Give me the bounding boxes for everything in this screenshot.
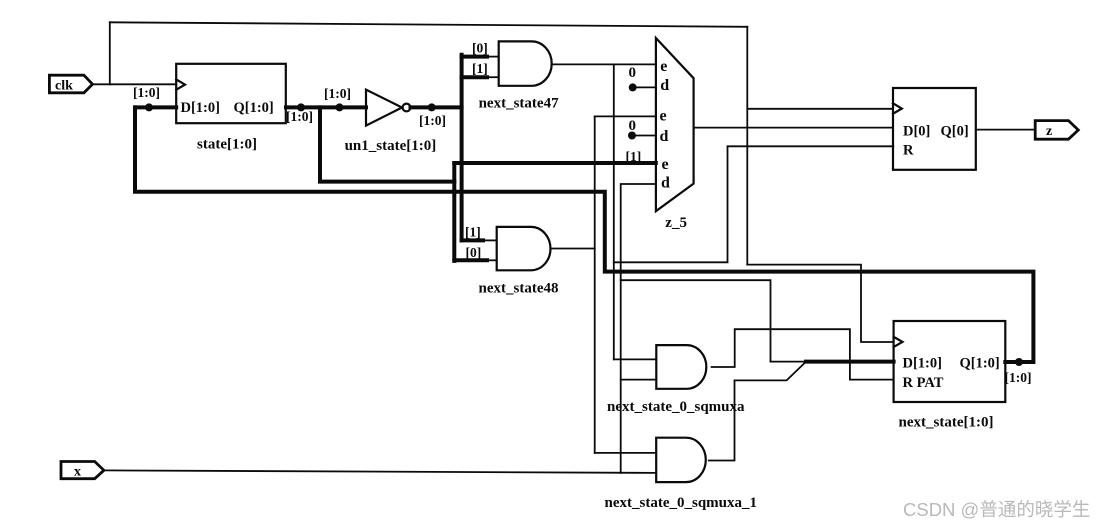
and-gate next_state_0_sqmuxa xyxy=(656,345,706,389)
svg-text:R: R xyxy=(903,143,914,159)
bus un1_state vertical xyxy=(460,55,464,241)
wire clock to z flipflop xyxy=(747,108,893,110)
svg-text:next_state_0_sqmuxa: next_state_0_sqmuxa xyxy=(607,399,745,415)
bus state FF D input xyxy=(135,105,176,109)
svg-text:state[1:0]: state[1:0] xyxy=(197,137,257,153)
svg-text:Q[1:0]: Q[1:0] xyxy=(960,356,1000,372)
svg-text:[1:0]: [1:0] xyxy=(324,86,351,101)
node dot D input xyxy=(145,103,153,111)
svg-text:[1:0]: [1:0] xyxy=(419,113,446,128)
svg-text:D[1:0]: D[1:0] xyxy=(181,100,220,116)
wire clock top horizontal xyxy=(110,22,748,27)
svg-text:CSDN @普通的晓学生: CSDN @普通的晓学生 xyxy=(903,499,1090,520)
wire x net to D bus bit xyxy=(621,280,771,361)
wire and48 net to sqmuxa_1 gate xyxy=(595,452,657,454)
svg-text:d: d xyxy=(661,175,670,192)
bus state bit to mux e3 xyxy=(454,161,656,165)
wire and47 output to mux e1 xyxy=(552,63,656,65)
svg-text:[0]: [0] xyxy=(466,245,482,260)
flip-flop z output register xyxy=(893,88,976,170)
svg-text:un1_state[1:0]: un1_state[1:0] xyxy=(345,138,437,154)
bus state Q tap down xyxy=(320,107,454,181)
bus feedback next_state to state D xyxy=(135,107,1033,362)
bus vertical state bits xyxy=(452,163,456,261)
wire z FF Q to port z xyxy=(976,129,1035,131)
port x xyxy=(61,462,104,479)
svg-text:D[0]: D[0] xyxy=(903,124,930,140)
wire and47 net down xyxy=(613,64,615,359)
svg-text:d: d xyxy=(660,128,669,145)
wire sqmuxa_1 output to D bus xyxy=(709,362,806,461)
svg-text:e: e xyxy=(662,156,669,173)
wire and47 net to sqmuxa gate xyxy=(614,358,657,360)
svg-text:d: d xyxy=(660,77,669,94)
svg-text:[1]: [1] xyxy=(472,61,488,76)
port z xyxy=(1035,121,1078,140)
svg-text:e: e xyxy=(660,58,667,75)
wire and48 output xyxy=(551,248,595,250)
wire clk trunk up xyxy=(109,22,111,84)
flip-flop next_state[1:0] xyxy=(894,321,1006,402)
svg-text:[1:0]: [1:0] xyxy=(1005,370,1032,385)
inverter un1_state xyxy=(366,90,410,126)
wire and48 net to mux e2 xyxy=(595,115,656,117)
svg-text:next_state_0_sqmuxa_1: next_state_0_sqmuxa_1 xyxy=(605,495,758,511)
mux z_5 xyxy=(656,38,694,211)
wire x input xyxy=(104,470,656,473)
svg-text:R PAT: R PAT xyxy=(903,375,944,391)
svg-text:[1:0]: [1:0] xyxy=(286,109,313,124)
wire clock to next_state flipflop xyxy=(747,265,893,342)
svg-text:next_state[1:0]: next_state[1:0] xyxy=(899,415,994,431)
node dot state Q xyxy=(297,103,305,111)
and-gate next_state_0_sqmuxa_1 xyxy=(656,438,706,482)
svg-text:[1]: [1] xyxy=(465,224,481,239)
wire state bit to and48 lower input xyxy=(454,258,487,262)
wire clock trunk down xyxy=(746,27,748,265)
wire clk to state FF xyxy=(93,83,177,85)
svg-text:x: x xyxy=(74,465,81,480)
node dot next_state Q xyxy=(1015,358,1023,366)
wire and47 net to z FF reset xyxy=(614,146,894,262)
node dot after inverter xyxy=(428,103,436,111)
svg-text:z_5: z_5 xyxy=(665,215,687,231)
svg-text:[1:0]: [1:0] xyxy=(133,85,160,100)
svg-text:Q[1:0]: Q[1:0] xyxy=(234,100,274,116)
wire and48 net vertical xyxy=(594,116,596,453)
port clk xyxy=(49,75,92,93)
wire x net to sqmuxa gate lower input xyxy=(621,379,657,381)
wire un1_state bit1 to and48 upper input xyxy=(462,238,483,242)
wire x net d3 branch xyxy=(621,184,656,473)
svg-text:Q[0]: Q[0] xyxy=(941,124,969,140)
svg-text:next_state47: next_state47 xyxy=(479,96,559,112)
and-gate next_state47 xyxy=(499,41,552,85)
bus inverter output xyxy=(411,105,462,109)
svg-text:[1]: [1] xyxy=(626,149,642,164)
wire D bit segment xyxy=(771,361,807,363)
svg-text:clk: clk xyxy=(55,79,73,94)
wire sqmuxa output to R PAT xyxy=(712,329,894,379)
wire un1_state bit0 to and47 xyxy=(462,55,487,59)
svg-text:D[1:0]: D[1:0] xyxy=(903,356,942,372)
and-gate next_state48 xyxy=(497,227,551,270)
bus state Q output xyxy=(286,105,366,109)
flip-flop state[1:0] xyxy=(176,64,286,123)
bus next_state FF D input xyxy=(806,360,894,364)
svg-text:[0]: [0] xyxy=(472,41,488,56)
wire mux output to z FF xyxy=(694,127,893,129)
node dot before inverter xyxy=(336,103,344,111)
svg-text:next_state48: next_state48 xyxy=(479,281,559,297)
wire un1_state bit1 to and47 xyxy=(462,75,487,79)
svg-text:0: 0 xyxy=(629,65,637,81)
svg-text:z: z xyxy=(1046,124,1052,139)
svg-text:e: e xyxy=(660,107,667,124)
